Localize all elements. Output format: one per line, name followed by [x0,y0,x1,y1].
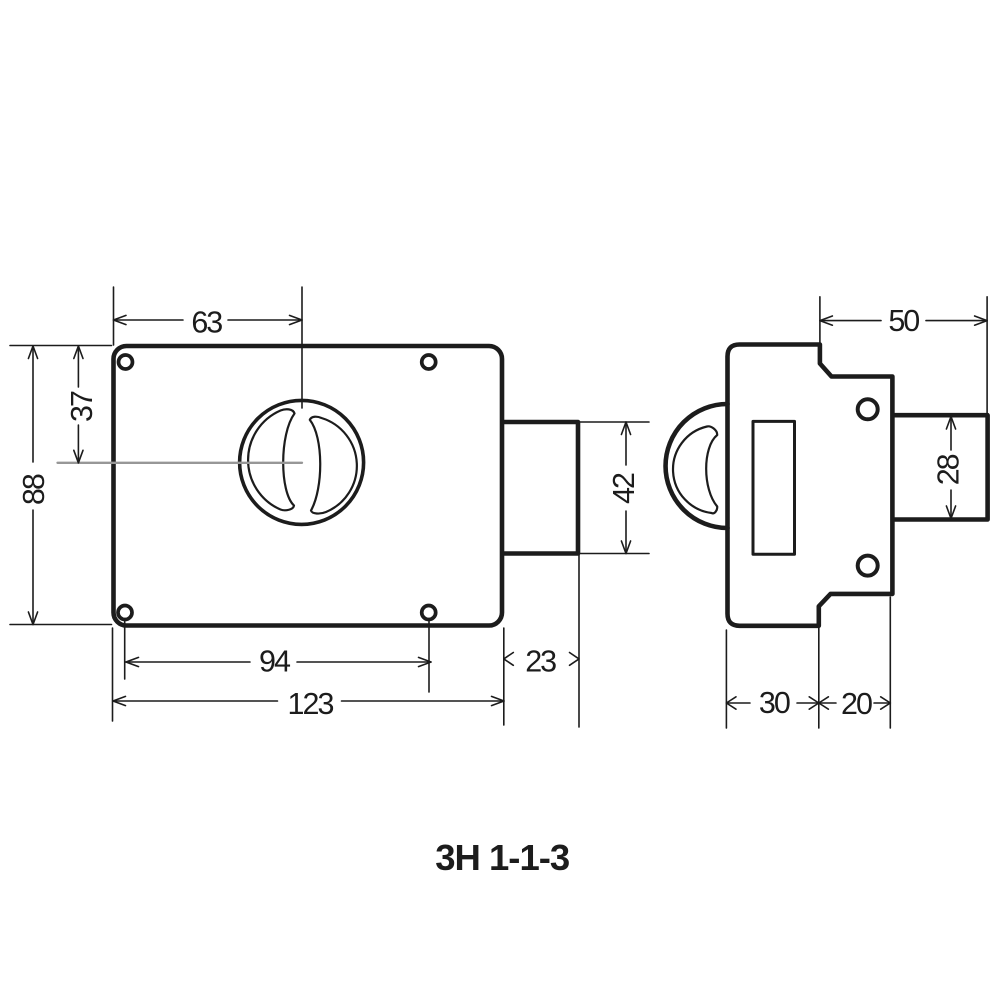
right view screw circle top [858,399,878,419]
dim 20 line [819,697,891,709]
extension line 50 right [986,297,988,413]
extension line body left bottom [112,628,114,721]
extension line bolt bottom [505,553,649,555]
dim 30 line [726,697,818,709]
right view bolt [894,415,988,519]
extension line 20 right [889,597,891,728]
extension line bolt right bottom [578,555,580,727]
dim 23 arrows [504,653,579,666]
left view body plate [114,346,503,626]
extension line knob center top [301,287,303,408]
svg-text:20: 20 [841,687,872,721]
screw hole bottom-left [118,606,132,620]
svg-text:88: 88 [17,474,51,505]
dim 123 line [113,696,504,705]
right view body outline [728,345,893,626]
screw hole top-left [119,355,133,369]
center line gray [58,462,303,464]
svg-text:42: 42 [607,473,641,504]
svg-text:94: 94 [259,645,291,679]
svg-text:63: 63 [191,306,222,340]
extension line hole bottom-left [124,620,126,679]
right view knob half-disc [666,404,728,528]
thumbturn right wing [310,417,357,514]
dim 42 line [621,422,630,554]
right view knob crescent [673,426,717,513]
thumbturn circle [240,400,364,524]
svg-text:28: 28 [932,454,966,485]
extension line body right bottom [503,628,505,725]
dim 37 line [74,346,83,463]
right view bolt slot [753,421,795,554]
thumbturn left wing [248,409,294,510]
svg-text:123: 123 [288,687,334,721]
svg-text:3H 1-1-3: 3H 1-1-3 [435,837,569,878]
extension line body left top [113,287,115,345]
screw hole bottom-right [422,606,436,620]
extension line 30 left [725,630,727,728]
svg-text:30: 30 [759,686,790,720]
extension line 50 left [819,297,821,343]
extension line bolt top [505,421,649,423]
dim 88 line [28,346,37,625]
svg-text:23: 23 [525,645,556,679]
screw hole top-right [422,355,436,369]
bolt front view [503,422,578,554]
dim 28 line [946,417,955,519]
svg-text:37: 37 [65,391,99,422]
right view screw circle bottom [858,556,878,576]
dim 63 line [114,315,303,324]
dim 50 line [820,316,987,325]
extension line hole bottom-right [428,620,430,692]
svg-text:50: 50 [888,304,919,338]
extension line 30-20 middle [818,628,820,728]
dim 94 line [126,657,431,666]
extension line 88 top [10,345,112,347]
extension line 88 bottom [10,624,112,626]
